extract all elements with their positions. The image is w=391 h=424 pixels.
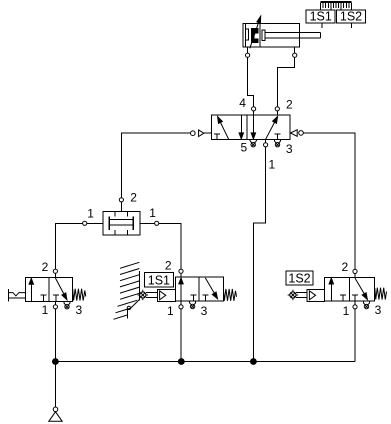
5/2 valve port 4 stub [253, 111, 255, 115]
svg-text:3: 3 [75, 303, 82, 317]
svg-text:1S1: 1S1 [148, 273, 170, 287]
junction node at bus / left valve / source [53, 359, 59, 365]
two-pressure valve output port 2 [120, 202, 122, 211]
distance rule comb [321, 2, 352, 10]
5/2 valve port 2 stub [276, 111, 278, 115]
svg-text:3: 3 [375, 303, 382, 317]
svg-text:2: 2 [286, 98, 293, 112]
wire cylinder left port to 5/2 valve port 4 [248, 57, 254, 107]
svg-text:1: 1 [149, 206, 156, 220]
junction node at bus / valve 1S1 port 1 [178, 359, 184, 365]
svg-text:1S1: 1S1 [310, 10, 332, 24]
svg-text:1S2: 1S2 [340, 10, 362, 24]
wire left valve port 1 down to bus [54, 309, 56, 361]
valve 1S2 port labels [341, 260, 381, 318]
5/2 valve port labels [239, 96, 293, 171]
5/2 valve port 3 exhaust [274, 139, 280, 147]
wire valve 1S1 port 1 down to bus [180, 309, 182, 361]
junction node at bus / 5/2 valve port 1 [251, 359, 257, 365]
wire shuttle output 2 to left pilot of 5/2 valve [121, 133, 190, 197]
svg-text:2: 2 [130, 191, 137, 205]
svg-text:1: 1 [268, 157, 275, 171]
3/2-way roller valve 1S1 body (actuated) [176, 277, 224, 301]
svg-text:1: 1 [343, 304, 350, 318]
wire bus down to compressed air source [55, 362, 57, 408]
valve 1S2 port 2 stub [354, 274, 356, 278]
valve 1S2 roller pilot actuator [288, 289, 325, 301]
valve 1S1 label box [144, 273, 173, 288]
rule label box 1S2 [336, 10, 365, 29]
5/2-way double pilot valve 1V1 body [211, 115, 290, 139]
5/2 valve left chamber: flow 1 to 4 [218, 117, 229, 140]
valve 1S2 left chamber: flow 1 to 2 (up arrow) [329, 278, 333, 301]
5/2 valve port 1 stub [265, 139, 267, 142]
5/2 valve right chamber: flow 4 to 5 (down arrow) [251, 115, 255, 139]
valve 1S1 left chamber: blocked port 3 (T) [191, 295, 197, 301]
cylinder 1A (double-acting, adjustable cushioning) [243, 24, 320, 54]
valve 1S2 right chamber: flow 2 to 3 [355, 278, 367, 299]
wire cylinder right port to 5/2 valve port 2 [277, 57, 294, 107]
manual valve return spring [73, 289, 86, 301]
cylinder left port connection [246, 53, 250, 57]
svg-text:1: 1 [87, 206, 94, 220]
compressed air source 0Z [49, 407, 62, 421]
cylinder right port connection [293, 53, 297, 57]
svg-text:2: 2 [165, 259, 172, 273]
two-pressure valve right input port 1 [155, 221, 159, 225]
two-pressure valve port labels [87, 191, 156, 221]
3/2-way manual valve (start button) body [25, 278, 72, 302]
valve 1S1 right chamber: blocked port (T) [203, 295, 209, 301]
5/2 valve left chamber: flow 2 to 3 (down arrow) [239, 115, 243, 139]
manual valve port 2 stub [54, 274, 56, 278]
wire shuttle right input down to valve 1S1 port 2 [140, 223, 181, 269]
valve 1S1 roller pilot actuator [138, 289, 176, 301]
wire right pilot of 5/2 valve to valve 1S2 port 2 [303, 133, 355, 269]
valve 1S1 left chamber: flow 1 to 2 (up arrow) [179, 278, 183, 301]
cam flag (distance rule) actuating valve 1S1 [114, 262, 140, 319]
svg-text:5: 5 [240, 140, 247, 154]
svg-text:3: 3 [286, 142, 293, 156]
manual valve left chamber: blocked port (T) [41, 295, 47, 301]
valve 1S1 port 3 exhaust [190, 301, 196, 309]
wire left valve port 2 up to shuttle left input [55, 223, 103, 269]
wire supply bus [55, 361, 355, 363]
manual valve left chamber: flow 1 to 2 (up arrow) [29, 278, 33, 301]
valve 1S1 return spring [223, 289, 236, 301]
5/2 valve left chamber: blocked port 5 (T) [214, 134, 220, 139]
valve 1S2 left chamber: blocked port (T) [340, 295, 346, 301]
svg-text:1: 1 [167, 304, 174, 318]
5/2 valve port 5 exhaust [250, 139, 256, 147]
cylinder cushioning adjustment arrow [250, 16, 261, 48]
valve 1S1 port labels [165, 259, 208, 319]
two-pressure valve left input port 1 [83, 221, 87, 225]
valve 1S1 right chamber: flow 2 to 3 [205, 278, 217, 299]
3/2-way roller valve 1S2 body (rest position) [325, 277, 375, 301]
manual valve port labels [42, 260, 83, 317]
valve 1S2 right chamber: blocked port 1 (T) [352, 295, 358, 301]
svg-text:2: 2 [42, 260, 49, 274]
valve 1S2 label box [286, 271, 313, 286]
valve 1S1 port 2 stub [180, 273, 182, 277]
manual valve right chamber: blocked port 1 (T) [53, 295, 59, 301]
5/2 valve right pilot (port 12) [290, 130, 303, 137]
svg-text:1: 1 [42, 303, 49, 317]
manual valve right chamber: flow 2 to 3 [55, 278, 67, 300]
two-pressure valve 1V2 (AND) body [103, 211, 140, 235]
svg-text:4: 4 [239, 96, 246, 110]
manual valve port 3 exhaust [64, 301, 70, 309]
manual valve port 1 stub [54, 301, 56, 304]
valve 1S1 port 1 stub [180, 301, 182, 305]
rule label box 1S1 [306, 10, 335, 29]
wire valve 1S2 port 1 down to bus [354, 309, 356, 361]
5/2 valve right chamber: flow 1 to 2 [266, 117, 278, 140]
valve 1S2 port 1 stub [354, 301, 356, 304]
svg-text:3: 3 [201, 304, 208, 318]
valve 1S2 port 3 exhaust [363, 301, 369, 309]
svg-text:2: 2 [341, 260, 348, 274]
valve 1S2 return spring [375, 288, 387, 300]
5/2 valve left pilot (port 14) [191, 130, 212, 137]
svg-text:1S2: 1S2 [288, 271, 310, 285]
5/2 valve right chamber: blocked port 3 (T) [275, 134, 281, 139]
manual valve push-button actuator [8, 289, 25, 301]
wire 5/2 valve port 1 down to supply bus [253, 147, 265, 362]
